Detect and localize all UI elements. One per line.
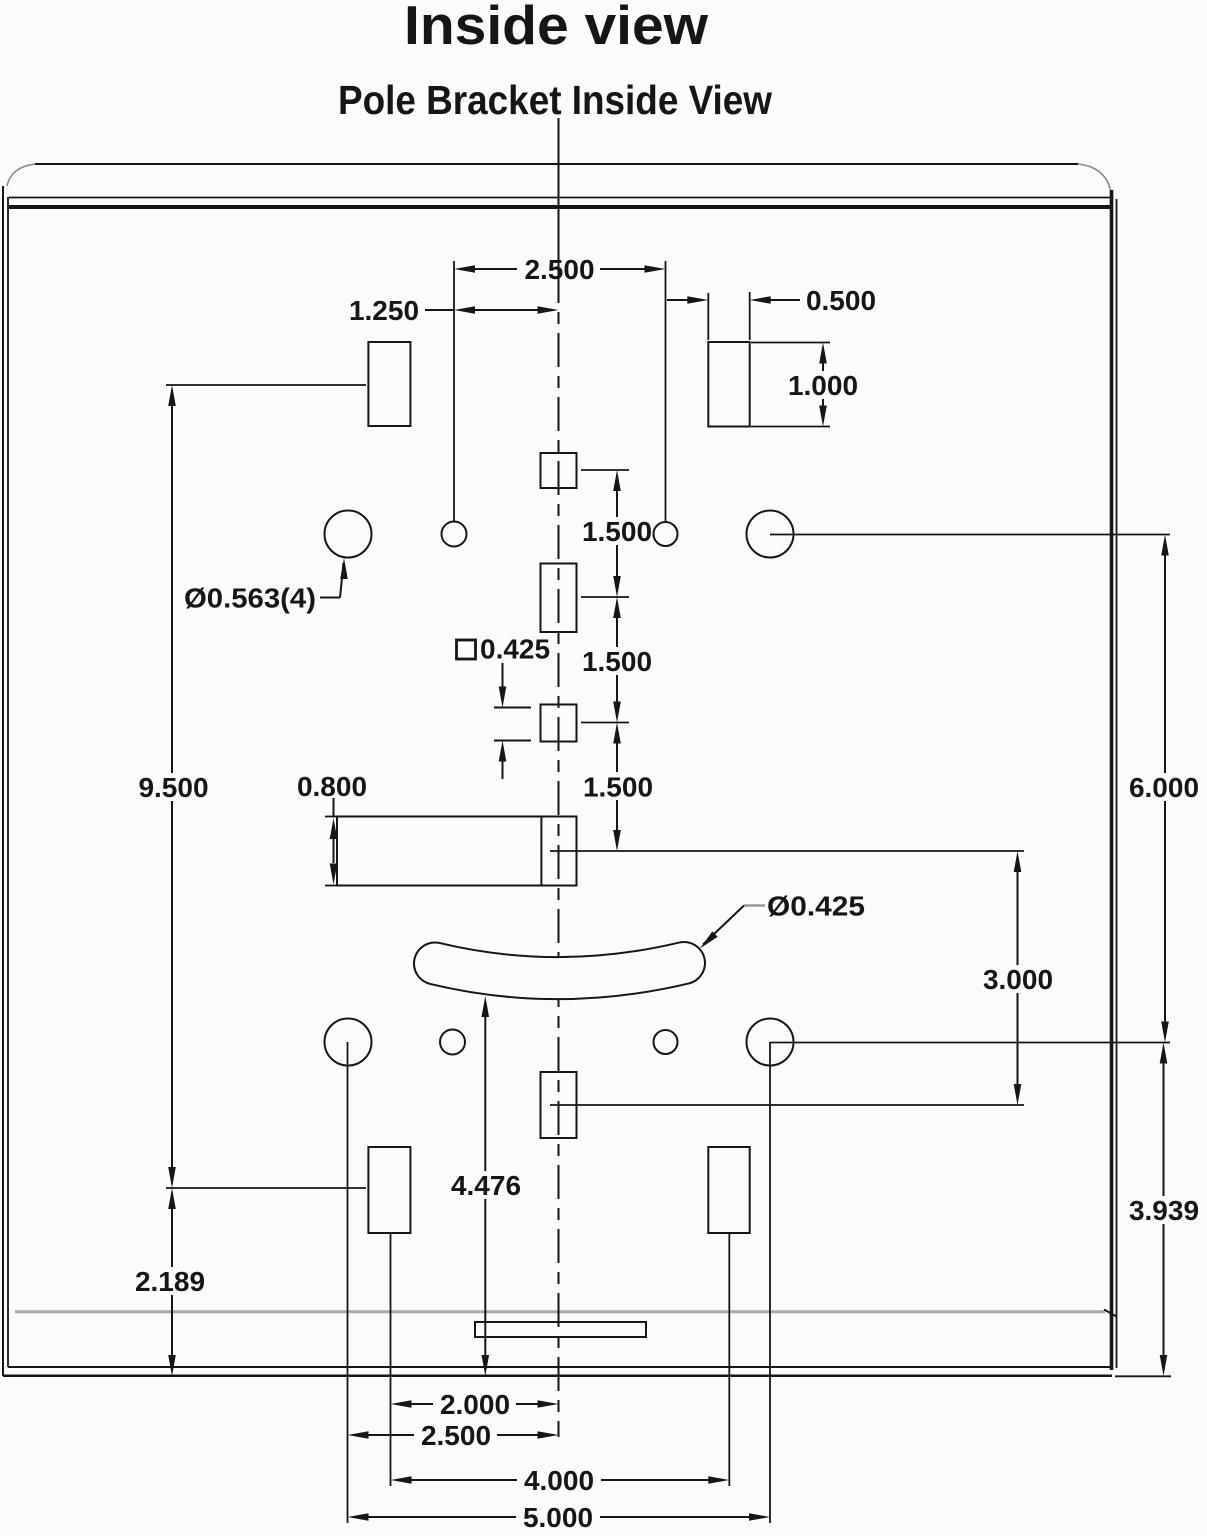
dim 2.000 xyxy=(391,1400,412,1408)
svg-text:4.476: 4.476 xyxy=(451,1170,521,1201)
label square 0.425 with arrows xyxy=(457,640,476,659)
svg-text:1.000: 1.000 xyxy=(788,370,858,401)
hole big bottom-right 0.563 xyxy=(747,1019,794,1066)
svg-text:3.000: 3.000 xyxy=(983,964,1053,995)
square hole 3 (0.425) xyxy=(541,705,577,742)
bracket top fold line thick xyxy=(9,205,1110,209)
bracket left edge inner xyxy=(7,197,9,1367)
dim 5.000 xyxy=(348,1513,369,1521)
extension line hslot center xyxy=(550,850,1024,852)
svg-text:Inside view: Inside view xyxy=(404,0,708,56)
bracket left edge outer xyxy=(2,186,4,1376)
center slot bottom xyxy=(541,1072,577,1138)
svg-text:1.500: 1.500 xyxy=(582,516,652,547)
svg-text:3.939: 3.939 xyxy=(1129,1195,1199,1226)
bracket right edge thick xyxy=(1110,190,1114,1370)
svg-text:9.500: 9.500 xyxy=(138,772,208,803)
horizontal slot inner divider xyxy=(540,817,542,886)
svg-text:2.189: 2.189 xyxy=(135,1266,205,1297)
svg-text:0.800: 0.800 xyxy=(297,771,367,802)
hole small top-left xyxy=(442,522,467,547)
horizontal slot 0.8 xyxy=(337,817,577,886)
dim 2.500 bottom xyxy=(348,1431,369,1439)
curved slot 0.425 xyxy=(435,963,684,978)
svg-text:Ø0.425: Ø0.425 xyxy=(767,891,865,922)
bracket bottom edge inner xyxy=(8,1366,1111,1368)
bracket bottom fold step xyxy=(1104,1310,1117,1317)
svg-text:1.500: 1.500 xyxy=(583,772,653,803)
dim 2.500 horizontal top xyxy=(453,261,455,521)
bottom thin rectangle slot xyxy=(475,1322,646,1337)
slot top-left 0.5x1.0 xyxy=(368,342,410,426)
svg-text:2.500: 2.500 xyxy=(421,1420,491,1451)
dim 1.000 xyxy=(751,342,830,344)
centerline solid top segment xyxy=(558,118,560,269)
svg-text:1.250: 1.250 xyxy=(349,295,419,326)
dim 6.000 xyxy=(770,534,1170,536)
dim chain 1.500 x3 xyxy=(581,469,629,471)
svg-text:4.000: 4.000 xyxy=(524,1465,594,1496)
extension big-hole left column xyxy=(347,1042,349,1523)
hole small bottom-left xyxy=(440,1030,465,1055)
dim 4.000 xyxy=(391,1476,412,1484)
dim 9.500 xyxy=(166,384,366,386)
hole big top-left 0.563 xyxy=(325,511,372,558)
slot top-right 0.5x1.0 xyxy=(708,342,749,427)
bracket top-left corner arc xyxy=(7,164,35,186)
hole big top-right 0.563 xyxy=(747,511,794,558)
centerline dashed xyxy=(558,269,560,1437)
bracket bottom fold line gray xyxy=(15,1310,1105,1313)
svg-text:Ø0.563(4): Ø0.563(4) xyxy=(184,583,316,614)
svg-text:0.500: 0.500 xyxy=(806,285,876,316)
dim 3.000 xyxy=(550,1104,1024,1106)
square hole 1 (0.425) xyxy=(541,453,577,488)
svg-text:0.425: 0.425 xyxy=(480,634,550,665)
svg-text:2.000: 2.000 xyxy=(440,1389,510,1420)
svg-text:1.500: 1.500 xyxy=(582,646,652,677)
bracket right edge thin xyxy=(1116,199,1118,1368)
dim 3.939 xyxy=(1160,1043,1168,1064)
bracket top-right corner arc xyxy=(1078,164,1111,190)
extension slot right column xyxy=(728,1233,730,1486)
bracket top fold line thin xyxy=(9,197,1111,199)
svg-text:Pole Bracket Inside View: Pole Bracket Inside View xyxy=(338,77,772,123)
extension big-hole right column xyxy=(769,1042,771,1523)
hole small bottom-right xyxy=(654,1030,678,1054)
center slot 2 xyxy=(541,564,577,633)
dim 4.476 xyxy=(482,996,490,1017)
slot bottom-right 0.5x1.0 xyxy=(708,1147,749,1233)
slot bottom-left 0.5x1.0 xyxy=(368,1147,410,1233)
hole small top-right xyxy=(654,522,678,546)
svg-text:2.500: 2.500 xyxy=(524,254,594,285)
hole big bottom-left 0.563 xyxy=(325,1019,372,1066)
svg-text:5.000: 5.000 xyxy=(523,1502,593,1533)
bracket bottom edge outer xyxy=(3,1374,1112,1377)
dim 0.500 xyxy=(707,293,709,340)
svg-text:6.000: 6.000 xyxy=(1129,772,1199,803)
extension slot left column xyxy=(390,1233,392,1486)
bracket top edge xyxy=(35,163,1078,165)
dim 2.189 xyxy=(168,1188,176,1209)
